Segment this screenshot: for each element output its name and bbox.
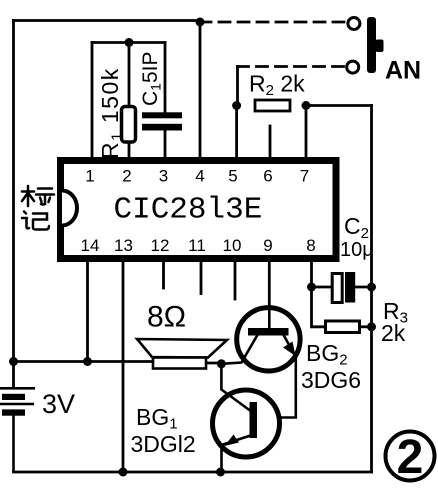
wire pin 9 to BG2 base (268, 261, 271, 306)
wire R3 right lead (360, 325, 372, 328)
svg-text:7: 7 (300, 167, 309, 186)
figure number 2 in circle (386, 431, 435, 484)
pushbutton switch AN (347, 17, 384, 73)
IC U1 CIC2813E body (61, 161, 337, 259)
junction pin 13 with bottom rail (119, 468, 128, 477)
svg-text:CIC28l3E: CIC28l3E (114, 193, 263, 228)
speaker 8 ohm (137, 339, 227, 369)
wire R1 leads (pin 2) (128, 43, 131, 159)
svg-text:R2 2k: R2 2k (249, 71, 305, 100)
svg-text:8: 8 (306, 236, 315, 255)
wire speaker right lead to node A (206, 362, 221, 365)
svg-text:13: 13 (114, 236, 133, 255)
wire from dashed line down to R2 left node (236, 67, 239, 106)
svg-text:3DGl2: 3DGl2 (131, 431, 196, 457)
IC pin numbers top row (85, 167, 309, 186)
wire top rail of R1/C1 loop (92, 41, 165, 44)
svg-text:3: 3 (159, 167, 168, 186)
IC pin numbers bottom row (81, 236, 316, 255)
svg-text:2: 2 (397, 431, 424, 484)
junction pin 14 with speaker feed (83, 357, 92, 366)
battery 3V (0, 388, 35, 472)
junction C2 right lead with right rail (367, 283, 376, 292)
svg-text:3V: 3V (42, 389, 75, 419)
svg-text:6: 6 (263, 167, 272, 186)
transistor BG2 (3DG6) (221, 304, 300, 418)
svg-text:C15IP: C15IP (139, 52, 164, 107)
wire pin 1 (91, 43, 94, 159)
junction R3 right lead with right rail (367, 322, 376, 331)
junction pin 8 with C2 left lead (307, 283, 316, 292)
wire speaker feed from left rail (14, 360, 154, 363)
label biao-ji (Chinese mark) (22, 186, 54, 230)
svg-text:1: 1 (85, 167, 94, 186)
wire pin 5 (235, 106, 238, 159)
wire pin 10 stub (234, 261, 237, 299)
wire top supply line (14, 19, 201, 22)
junction left rail with speaker feed (9, 357, 18, 366)
svg-text:4: 4 (195, 167, 204, 186)
transistor BG1 (3DG12) (213, 364, 280, 472)
node A: speaker / BG2 collector / BG1 base (217, 359, 226, 368)
resistor R2 (255, 100, 290, 111)
junction BG1 emitter with bottom rail (216, 468, 225, 477)
resistor R3 (326, 321, 360, 333)
junction R2 left node (pin 5 / switch) (232, 101, 241, 110)
svg-text:2: 2 (122, 167, 131, 186)
wire dashed link to switch bottom contact (238, 65, 345, 68)
svg-text:5: 5 (228, 167, 237, 186)
junction R1/C1 top rail at pin 2 (125, 38, 134, 47)
wire bottom rail (14, 471, 372, 474)
wire pin 11 stub (200, 261, 203, 294)
svg-text:8Ω: 8Ω (147, 301, 186, 334)
svg-text:3DG6: 3DG6 (301, 367, 361, 393)
wire C1 leads (pin 3) (164, 43, 167, 159)
capacitor C1 (142, 112, 182, 130)
wire C2 leads (312, 286, 372, 289)
IC index notch (62, 191, 77, 226)
svg-text:2k: 2k (381, 320, 406, 346)
wire pin 12 stub (162, 261, 165, 288)
svg-text:11: 11 (188, 236, 206, 255)
wire pin 13 (122, 261, 125, 472)
svg-text:R1 150k: R1 150k (97, 67, 126, 159)
svg-text:14: 14 (81, 236, 100, 255)
wire pin 8 down to R3 left lead (312, 261, 326, 327)
wire pin 7 (305, 106, 308, 159)
svg-text:9: 9 (263, 236, 272, 255)
svg-text:AN: AN (385, 57, 421, 85)
svg-text:10: 10 (223, 236, 242, 255)
svg-text:10μ: 10μ (340, 239, 374, 261)
wire right rail (370, 106, 373, 473)
svg-text:12: 12 (151, 236, 170, 255)
wire dashed link to switch top contact (200, 21, 346, 24)
wire pin 4 to top line (199, 22, 202, 158)
capacitor C2 (electrolytic) (332, 272, 355, 303)
wire R2 right node to right rail (306, 104, 372, 107)
wire left supply rail (12, 21, 15, 388)
wire pin 6 stub (269, 126, 272, 158)
junction pin 4 with top supply line (196, 18, 205, 27)
wire pin 14 (86, 261, 89, 362)
resistor R1 (122, 107, 136, 143)
junction R2 right node (pin 7 / right rail) (302, 101, 311, 110)
